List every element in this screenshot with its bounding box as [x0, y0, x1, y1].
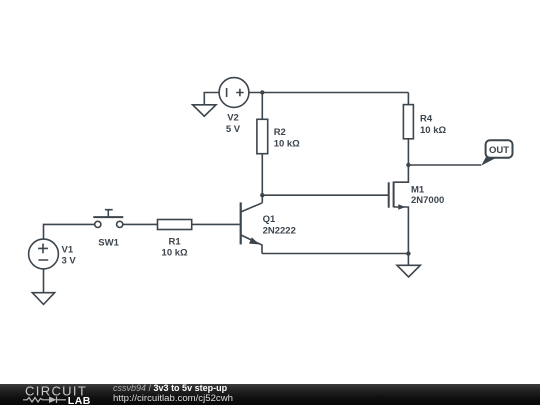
wire: R2 bottom lead to node A [261, 154, 263, 196]
transistor Q1 emitter arrow [249, 237, 259, 244]
transistor Q1 collector [241, 203, 263, 212]
transistor M1 gate bar [388, 182, 390, 207]
voltage source V2 [219, 78, 249, 108]
svg-text:10 kΩ: 10 kΩ [162, 248, 188, 259]
node: top junction V2/R2 [260, 90, 264, 94]
logo diode triangle [49, 397, 57, 404]
wire: node A to M1 gate [262, 194, 388, 196]
logo resistor-diode glyph [23, 397, 66, 404]
resistor R1 [158, 220, 192, 230]
svg-text:2N7000: 2N7000 [411, 195, 444, 206]
footer bar [0, 384, 540, 405]
wire: node B to OUT flag [408, 164, 481, 166]
ground (bottom left, V1) [32, 293, 54, 305]
voltage source V1 [29, 239, 59, 269]
wire: node C to ground [407, 254, 409, 266]
svg-text:2N2222: 2N2222 [263, 226, 296, 237]
transistor Q1 base bar [240, 202, 242, 244]
wire: top rail V2+ to R4 [249, 92, 409, 94]
wire: node A down to Q1 collector [261, 195, 263, 203]
svg-text:10 kΩ: 10 kΩ [420, 125, 446, 136]
wire: V1 bottom lead [43, 269, 45, 293]
svg-text:5 V: 5 V [226, 124, 241, 135]
svg-text:cssvb94 / 3v3 to 5v step-up: cssvb94 / 3v3 to 5v step-up [113, 384, 228, 393]
wire: SW1 to R1 [123, 223, 158, 225]
wire: R2 top lead [261, 93, 263, 120]
svg-text:LAB: LAB [68, 395, 91, 405]
wire: R4 top lead [407, 93, 409, 105]
svg-text:3 V: 3 V [62, 255, 77, 266]
transistor M1 channel bar [393, 182, 395, 208]
flag OUT box [486, 140, 513, 157]
ground (top left, V2) [193, 105, 216, 116]
switch SW1 [95, 221, 101, 227]
transistor Q1 emitter [241, 235, 262, 254]
node C: emitter rail / M1 source / ground [406, 251, 410, 255]
wire: bottom rail Q1 emitter to node C [262, 253, 409, 255]
node B: R4 / M1 drain / OUT [406, 163, 410, 167]
svg-text:10 kΩ: 10 kΩ [274, 138, 300, 149]
transistor M1 source [394, 207, 409, 254]
svg-text:OUT: OUT [489, 145, 509, 156]
transistor M1 source arrow [398, 204, 405, 209]
svg-text:R1: R1 [169, 236, 182, 247]
wire: R1 to Q1 base [192, 223, 240, 225]
transistor M1 drain [394, 165, 409, 182]
svg-text:R2: R2 [274, 127, 286, 138]
resistor R4 [403, 105, 413, 139]
svg-text:R4: R4 [420, 114, 433, 125]
node A: R2 / Q1 collector / M1 gate [260, 193, 264, 197]
wire: V2 negative lead to ground [204, 93, 219, 105]
wire: R4 bottom to node B [407, 139, 409, 165]
svg-text:V2: V2 [227, 113, 239, 124]
resistor R2 [257, 119, 268, 153]
ground (bottom right, M1 source) [397, 265, 420, 277]
svg-text:M1: M1 [411, 184, 425, 195]
svg-text:SW1: SW1 [98, 238, 119, 249]
svg-text:V1: V1 [62, 244, 74, 255]
svg-text:http://circuitlab.com/cj52cwh: http://circuitlab.com/cj52cwh [113, 393, 233, 404]
svg-text:Q1: Q1 [263, 214, 276, 225]
wire: V1 to SW1 [44, 224, 95, 239]
flag OUT tail [481, 157, 497, 165]
